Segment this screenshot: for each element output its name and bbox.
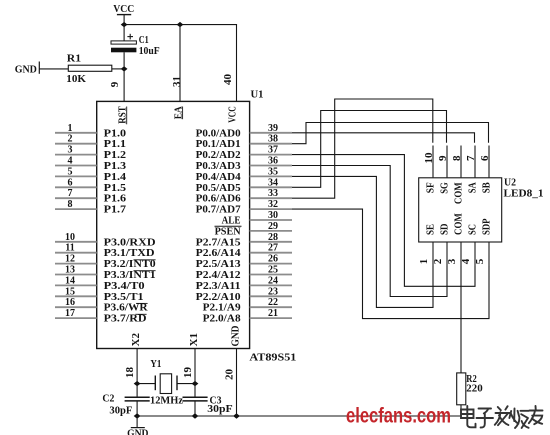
svg-text:SC: SC: [468, 224, 479, 235]
svg-text:3: 3: [447, 259, 458, 265]
svg-text:P3.4/T0: P3.4/T0: [104, 281, 145, 292]
svg-text:20: 20: [224, 369, 235, 380]
wire C3 to rail: [194, 401, 196, 416]
svg-text:28: 28: [268, 232, 278, 243]
svg-text:8: 8: [452, 156, 463, 162]
svg-text:18: 18: [125, 367, 136, 378]
svg-text:C1: C1: [139, 35, 149, 46]
U2 pin 10 stub top: [424, 146, 435, 178]
pin P1.2 stub (pin 3): [55, 145, 97, 156]
svg-text:X2: X2: [131, 333, 142, 347]
pin name P3.6/WR: [104, 303, 149, 314]
svg-text:2: 2: [68, 134, 73, 145]
ground port GND (left): [15, 62, 40, 76]
svg-text:P3.5/T1: P3.5/T1: [104, 292, 144, 303]
pin P3.1/TXD stub (pin 11): [55, 243, 97, 254]
svg-text:P3.3/INT1: P3.3/INT1: [104, 270, 156, 281]
svg-text:1: 1: [419, 259, 430, 265]
pin P0.2/AD2 stub (pin 37): [250, 145, 292, 156]
svg-text:36: 36: [268, 156, 278, 167]
wire GND pin 20: [224, 349, 236, 417]
svg-text:LED8_1: LED8_1: [504, 189, 544, 200]
node junction VCC/C1: [121, 22, 128, 27]
wire P0.1 to U2 SB (pin6): [292, 123, 489, 144]
svg-text:31: 31: [172, 76, 183, 87]
pin P3.3/INT1 stub (pin 13): [55, 265, 97, 276]
svg-text:GND: GND: [231, 326, 242, 347]
pin name EA (overbar): [173, 105, 184, 119]
svg-text:SE: SE: [426, 224, 437, 235]
svg-text:7: 7: [68, 188, 73, 199]
pin P3.5/T1 stub (pin 15): [55, 286, 97, 297]
svg-text:24: 24: [268, 275, 278, 286]
svg-text:21: 21: [268, 308, 278, 319]
wire GND to R1: [39, 68, 68, 70]
wire P0.3 to U2 SD (pin2): [292, 166, 447, 297]
svg-text:6: 6: [480, 156, 491, 162]
svg-text:14: 14: [65, 275, 75, 286]
svg-text:COM: COM: [454, 182, 465, 204]
svg-text:P2.7/A15: P2.7/A15: [196, 237, 241, 248]
svg-text:8: 8: [68, 199, 73, 210]
crystal Y1 12MHz: [150, 359, 184, 406]
pin P0.0/AD0 stub (pin 39): [250, 123, 292, 134]
svg-text:10: 10: [424, 153, 435, 164]
svg-text:elecfans.com: elecfans.com: [346, 404, 451, 427]
svg-text:19: 19: [183, 367, 194, 378]
svg-text:37: 37: [268, 145, 278, 156]
wire X2 to crystal: [137, 383, 155, 385]
svg-text:U2: U2: [504, 178, 516, 189]
svg-text:P3.6/WR: P3.6/WR: [104, 303, 149, 314]
pin name ALE (underline): [215, 216, 242, 227]
svg-text:SD: SD: [440, 224, 451, 236]
pin P1.1 stub (pin 2): [55, 134, 97, 145]
pin name P3.1/TXD: [104, 248, 155, 259]
svg-text:30pF: 30pF: [207, 404, 232, 415]
pin name P3.4/T0: [104, 281, 145, 292]
svg-text:P2.2/A10: P2.2/A10: [196, 292, 241, 303]
svg-text:SG: SG: [440, 182, 451, 194]
wire GND rail: [137, 415, 461, 417]
wire C2 to rail: [136, 401, 138, 416]
U2 pin 1 stub bottom: [419, 242, 433, 267]
svg-text:Y1: Y1: [150, 359, 161, 370]
svg-text:ALE: ALE: [222, 216, 241, 227]
U2 pin 8 stub top: [452, 146, 463, 178]
svg-text:PSEN: PSEN: [215, 227, 242, 238]
wire P0.7 to U2 SDP (pin5): [292, 209, 489, 319]
pin P3.7/RD stub (pin 17): [55, 308, 97, 319]
svg-text:220: 220: [466, 384, 482, 395]
svg-text:P1.1: P1.1: [104, 139, 127, 150]
svg-text:SA: SA: [468, 182, 479, 194]
svg-text:34: 34: [268, 177, 278, 188]
svg-text:P3.7/RD: P3.7/RD: [104, 314, 147, 325]
pin P2.2/A10 stub (pin 23): [250, 286, 292, 297]
resistor R1 10K: [66, 53, 112, 85]
svg-text:5: 5: [68, 166, 73, 177]
svg-text:38: 38: [268, 134, 278, 145]
svg-text:P3.0/RXD: P3.0/RXD: [104, 237, 156, 248]
wire P0.4 to U2 SE (pin1): [292, 176, 433, 307]
pin P2.7/A15 stub (pin 28): [250, 232, 292, 243]
svg-text:P2.3/A11: P2.3/A11: [196, 281, 241, 292]
pin P3.0/RXD stub (pin 10): [55, 232, 97, 243]
svg-text:27: 27: [268, 243, 278, 254]
pin P1.3 stub (pin 4): [55, 156, 97, 167]
watermark chinese characters: [461, 406, 543, 428]
svg-text:P0.0/AD0: P0.0/AD0: [196, 128, 241, 139]
resistor R2 220: [457, 373, 483, 405]
svg-text:P1.6: P1.6: [104, 194, 127, 205]
pin P2.5/A13 stub (pin 26): [250, 254, 292, 265]
pin P2.1/A9 stub (pin 22): [250, 297, 292, 308]
svg-text:P0.5/AD5: P0.5/AD5: [196, 183, 241, 194]
pin P2.4/A12 stub (pin 25): [250, 265, 292, 276]
svg-text:1: 1: [68, 123, 73, 134]
svg-text:23: 23: [268, 286, 278, 297]
svg-text:X1: X1: [189, 333, 200, 347]
svg-text:16: 16: [65, 297, 75, 308]
pin P1.7 stub (pin 8): [55, 199, 97, 210]
svg-text:SDP: SDP: [482, 219, 493, 236]
wire P0.2 to U2 SC (pin4): [292, 155, 475, 287]
svg-text:40: 40: [223, 74, 234, 85]
svg-text:30: 30: [268, 210, 278, 221]
svg-text:SF: SF: [426, 182, 437, 193]
svg-text:R1: R1: [67, 53, 81, 64]
pin P0.7/AD7 stub (pin 32): [250, 199, 292, 210]
power symbol VCC: [113, 4, 134, 41]
pin P0.1/AD1 stub (pin 38): [250, 134, 292, 145]
svg-text:10: 10: [65, 232, 75, 243]
capacitor C2 30pF: [102, 394, 149, 417]
svg-text:VCC: VCC: [113, 4, 134, 15]
wire RST pin 9 drop: [123, 69, 125, 102]
wire EA pin 31 drop: [179, 25, 181, 102]
svg-text:GND: GND: [15, 65, 37, 76]
pin P2.3/A11 stub (pin 24): [250, 275, 292, 286]
svg-text:P1.3: P1.3: [104, 161, 127, 172]
wire VCC pin 40 drop: [236, 25, 238, 102]
op-amp U1 AT89S51 chip body: [97, 101, 250, 348]
U2 pin 5 stub bottom: [475, 242, 489, 267]
svg-text:P0.1/AD1: P0.1/AD1: [196, 139, 241, 150]
pin name P3.7/RD: [104, 314, 147, 325]
U2 pin 2 stub bottom: [433, 242, 447, 267]
svg-text:12: 12: [65, 254, 75, 265]
svg-text:7: 7: [466, 156, 477, 162]
pin name RST: [118, 106, 129, 124]
svg-text:P0.2/AD2: P0.2/AD2: [196, 150, 241, 161]
node junction C2/GND symbol: [134, 413, 141, 418]
svg-text:4: 4: [461, 259, 472, 265]
wire P0.0 to U2 SA (pin7): [292, 133, 475, 143]
node junction X2/crystal: [134, 381, 141, 386]
pin P0.5/AD5 stub (pin 34): [250, 177, 292, 188]
node junction C3/rail: [192, 413, 199, 418]
svg-text:13: 13: [65, 265, 75, 276]
svg-text:15: 15: [65, 286, 75, 297]
svg-text:P2.6/A14: P2.6/A14: [196, 248, 241, 259]
pin P0.4/AD4 stub (pin 35): [250, 166, 292, 177]
U2 pin 4 stub bottom: [461, 242, 475, 267]
pin P3.4/T0 stub (pin 14): [55, 275, 97, 286]
svg-text:P1.7: P1.7: [104, 205, 127, 216]
pin P1.6 stub (pin 7): [55, 188, 97, 199]
svg-text:GND: GND: [127, 428, 148, 435]
wire VCC rail to EA/VCC pins: [124, 24, 237, 26]
wire P0.6 to U2 SF (pin10): [292, 99, 433, 198]
svg-text:17: 17: [65, 308, 75, 319]
node junction pin20/rail: [233, 413, 240, 418]
svg-text:AT89S51: AT89S51: [249, 352, 296, 363]
svg-text:3: 3: [68, 145, 73, 156]
svg-text:35: 35: [268, 166, 278, 177]
svg-text:30pF: 30pF: [109, 406, 132, 417]
svg-text:P2.1/A9: P2.1/A9: [203, 303, 241, 314]
pin name P3.5/T1: [104, 292, 144, 303]
U2 pin 7 stub top: [466, 146, 477, 178]
node junction X1/crystal: [192, 381, 199, 386]
capacitor C1 10uF: [111, 34, 160, 57]
svg-text:P3.2/INT0: P3.2/INT0: [104, 259, 156, 270]
wire C1 to RST node: [123, 52, 125, 69]
U2 pin 9 stub top: [438, 146, 449, 178]
svg-text:P1.2: P1.2: [104, 150, 127, 161]
svg-text:P2.4/A12: P2.4/A12: [196, 270, 241, 281]
svg-text:P0.7/AD7: P0.7/AD7: [196, 205, 241, 216]
svg-text:COM: COM: [454, 213, 465, 235]
svg-text:P0.6/AD6: P0.6/AD6: [196, 194, 241, 205]
svg-text:P0.4/AD4: P0.4/AD4: [196, 172, 241, 183]
svg-text:2: 2: [433, 259, 444, 265]
svg-text:10K: 10K: [66, 74, 86, 85]
svg-text:26: 26: [268, 254, 278, 265]
svg-text:25: 25: [268, 265, 278, 276]
svg-text:P1.4: P1.4: [104, 172, 127, 183]
pin P1.0 stub (pin 1): [55, 123, 97, 134]
svg-text:29: 29: [268, 221, 278, 232]
svg-text:U1: U1: [251, 89, 264, 100]
pin P1.5 stub (pin 6): [55, 177, 97, 188]
wire crystal to X1: [177, 383, 195, 385]
ground symbol GND (bottom): [127, 416, 148, 435]
node junction EA branch: [177, 22, 184, 27]
svg-text:6: 6: [68, 177, 73, 188]
svg-text:9: 9: [438, 156, 449, 162]
svg-text:P3.1/TXD: P3.1/TXD: [104, 248, 155, 259]
pin P3.2/INT0 stub (pin 12): [55, 254, 97, 265]
pin name P3.3/INT1: [104, 270, 156, 281]
U2 pin 3 stub bottom: [447, 242, 461, 267]
wire X2 pin 18: [125, 349, 137, 397]
U2 pin 6 stub top: [480, 146, 491, 178]
svg-text:11: 11: [65, 243, 74, 254]
pin name P3.0/RXD: [104, 237, 156, 248]
svg-text:P1.5: P1.5: [104, 183, 127, 194]
svg-text:C2: C2: [102, 394, 114, 405]
svg-text:32: 32: [268, 199, 278, 210]
op-amp U2 LED8_1 body: [419, 178, 502, 242]
pin P2.0/A8 stub (pin 21): [250, 308, 292, 319]
pin name P3.2/INT0: [104, 259, 156, 270]
capacitor C3 30pF: [183, 396, 233, 416]
svg-text:33: 33: [268, 188, 278, 199]
svg-text:9: 9: [110, 82, 121, 88]
svg-text:P2.5/A13: P2.5/A13: [196, 259, 241, 270]
svg-text:P2.0/A8: P2.0/A8: [203, 314, 241, 325]
svg-text:5: 5: [475, 259, 486, 265]
svg-text:12MHz: 12MHz: [150, 396, 184, 407]
svg-text:SB: SB: [482, 182, 493, 193]
wire R2 to GND rail: [460, 405, 462, 416]
svg-text:39: 39: [268, 123, 278, 134]
svg-text:P0.3/AD3: P0.3/AD3: [196, 161, 241, 172]
pin P2.6/A14 stub (pin 27): [250, 243, 292, 254]
wire P0.5 to U2 SG (pin9): [292, 111, 447, 188]
svg-text:22: 22: [268, 297, 278, 308]
pin ALE stub (pin 30): [250, 210, 292, 221]
pin P0.6/AD6 stub (pin 33): [250, 188, 292, 199]
pin P0.3/AD3 stub (pin 36): [250, 156, 292, 167]
svg-text:4: 4: [68, 156, 73, 167]
wire R1 to RST node: [112, 68, 124, 70]
pin PSEN stub (pin 29): [250, 221, 292, 232]
pin P1.4 stub (pin 5): [55, 166, 97, 177]
svg-text:10uF: 10uF: [139, 46, 160, 57]
svg-text:VCC: VCC: [228, 106, 239, 123]
wire X1 pin 19: [183, 349, 195, 397]
wire U2 COM (pin3) to R2: [460, 266, 462, 373]
svg-text:P1.0: P1.0: [104, 128, 127, 139]
pin P3.6/WR stub (pin 16): [55, 297, 97, 308]
node junction RST/R1: [121, 66, 128, 71]
